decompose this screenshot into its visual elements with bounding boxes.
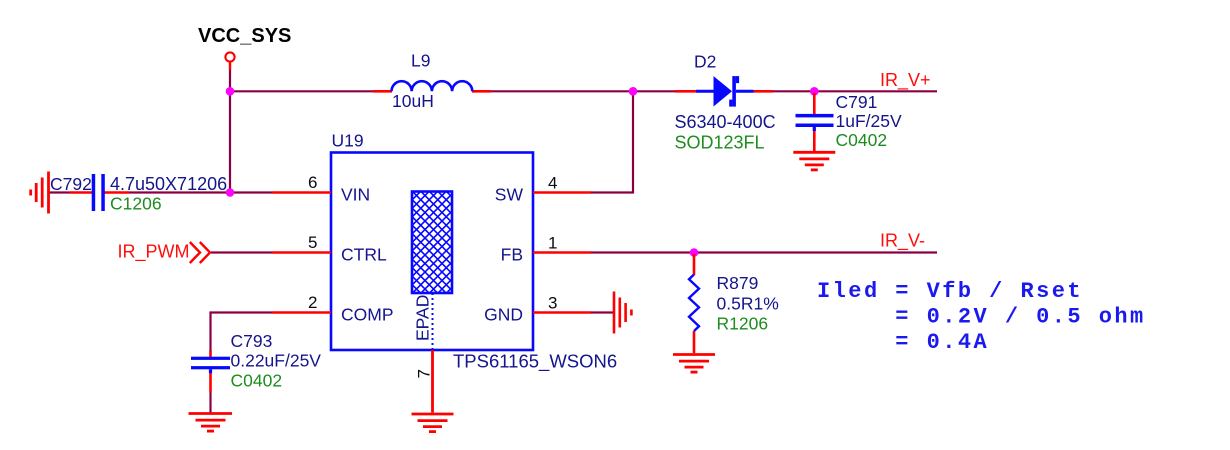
- junction dot VCC rail: [226, 87, 235, 96]
- inductor L9 leads: [373, 90, 392, 93]
- junction dot R879: [690, 248, 699, 257]
- wire VCC vertical from power symbol to VIN junction: [229, 70, 231, 193]
- svg-text:4: 4: [548, 174, 557, 193]
- svg-text:C793: C793: [231, 331, 273, 351]
- capacitor C791 leads: [813, 93, 816, 115]
- svg-text:Iled = Vfb / Rset: Iled = Vfb / Rset: [817, 279, 1083, 304]
- inductor L9: [392, 81, 473, 91]
- svg-text:7: 7: [415, 369, 434, 378]
- capacitor C791 plates: [796, 114, 834, 118]
- svg-text:3: 3: [548, 294, 557, 313]
- capacitor C792 plates: [92, 174, 96, 211]
- svg-text:CTRL: CTRL: [341, 245, 387, 265]
- svg-text:R879: R879: [717, 273, 759, 293]
- capacitor C793 leads: [209, 351, 212, 358]
- svg-text:= 0.4A: = 0.4A: [817, 330, 989, 355]
- power symbol VCC_SYS circle: [225, 52, 234, 61]
- pin 2 COMP stub: [272, 311, 331, 314]
- svg-text:C791: C791: [836, 92, 878, 112]
- power symbol stub: [229, 63, 231, 71]
- svg-text:0.22uF/25V: 0.22uF/25V: [231, 351, 322, 371]
- wire ground stub to C792: [49, 191, 70, 193]
- svg-text:5: 5: [308, 233, 317, 252]
- pin 5 CTRL stub: [272, 251, 331, 254]
- svg-text:U19: U19: [332, 131, 364, 151]
- EPAD dotted line to pin 7: [432, 293, 434, 349]
- svg-text:IR_V-: IR_V-: [880, 231, 925, 252]
- wire diode right segment maroon to IR_V+: [773, 90, 937, 92]
- junction dot VIN: [226, 188, 235, 197]
- svg-text:TPS61165_WSON6: TPS61165_WSON6: [453, 351, 617, 373]
- diode D2 leads red: [675, 90, 696, 93]
- diode D2 symbol: [696, 76, 754, 107]
- svg-text:10uH: 10uH: [392, 91, 434, 111]
- wire SW branch: down from junction then left to pin 4: [591, 91, 633, 192]
- junction dot SW/diode: [629, 87, 638, 96]
- svg-text:SW: SW: [495, 185, 524, 205]
- svg-text:0.5R1%: 0.5R1%: [717, 294, 779, 314]
- wire L9 to SW/diode junction: [490, 90, 633, 92]
- resistor R879 zigzag: [689, 275, 699, 332]
- pin 3 GND stub: [533, 311, 591, 314]
- svg-text:C0402: C0402: [836, 130, 888, 150]
- svg-text:VIN: VIN: [341, 185, 370, 205]
- svg-text:1uF/25V: 1uF/25V: [836, 111, 902, 131]
- svg-text:S6340-400C: S6340-400C: [675, 112, 776, 132]
- svg-text:EPAD: EPAD: [413, 295, 433, 341]
- wire IR_PWM to CTRL: [211, 251, 272, 253]
- ground below R879: [673, 355, 715, 373]
- svg-text:IR_PWM: IR_PWM: [118, 241, 190, 262]
- wire top rail VCC to L9: [230, 90, 374, 92]
- svg-text:R1206: R1206: [717, 314, 769, 334]
- pin 6 VIN stub: [272, 191, 331, 194]
- svg-text:6: 6: [308, 173, 317, 192]
- svg-text:C0402: C0402: [231, 371, 283, 391]
- svg-text:GND: GND: [484, 305, 523, 325]
- wire C793 bottom to ground: [209, 392, 211, 413]
- svg-text:1: 1: [548, 234, 557, 253]
- wire diode left segment maroon: [633, 90, 675, 92]
- capacitor C792 ground (left, sideways): [31, 172, 49, 214]
- capacitor C793 plates: [191, 357, 230, 360]
- svg-text:D2: D2: [694, 52, 716, 72]
- svg-text:IR_V+: IR_V+: [880, 70, 931, 91]
- svg-text:C1206: C1206: [110, 194, 162, 214]
- junction dot C791: [810, 87, 819, 96]
- ground below pin7: [412, 414, 454, 432]
- wire C792 to VIN junction and on to pin 6: [129, 191, 272, 193]
- svg-text:COMP: COMP: [341, 305, 394, 325]
- svg-text:VCC_SYS: VCC_SYS: [198, 25, 291, 47]
- ground below C793: [189, 414, 233, 432]
- svg-text:C792: C792: [50, 174, 92, 194]
- wire COMP branch left and down to C793: [211, 313, 273, 353]
- svg-text:SOD123FL: SOD123FL: [675, 132, 765, 152]
- svg-text:2: 2: [308, 293, 317, 312]
- IR_PWM chevron: [190, 242, 210, 263]
- IC U19 box: [331, 153, 533, 351]
- svg-text:FB: FB: [501, 245, 523, 265]
- pin 4 SW stub: [533, 191, 591, 194]
- wire GND pin3 to sideways ground: [591, 311, 613, 313]
- capacitor C792 leads: [70, 191, 92, 194]
- pin 7 EPAD stub: [431, 350, 434, 413]
- svg-text:= 0.2V / 0.5 ohm: = 0.2V / 0.5 ohm: [817, 305, 1146, 330]
- pin 1 FB stub: [533, 251, 591, 254]
- sideways ground at GND pin3: [614, 292, 631, 334]
- ground below C791: [793, 152, 835, 170]
- svg-text:4.7u50X71206: 4.7u50X71206: [110, 174, 227, 194]
- resistor R879 leads: [693, 254, 696, 275]
- svg-text:L9: L9: [411, 51, 430, 71]
- wire FB rail to IR_V-: [591, 251, 937, 253]
